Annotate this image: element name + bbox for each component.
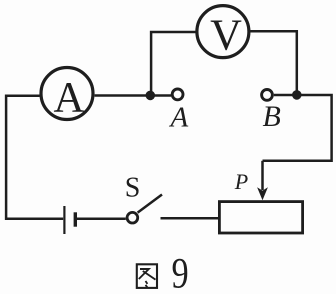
label P (italic) (234, 169, 248, 194)
svg-text:P: P (234, 169, 248, 194)
svg-text:A: A (169, 102, 189, 134)
caption numeral 9 (172, 250, 189, 294)
svg-text:B: B (263, 100, 281, 133)
switch S: pivot ring (127, 212, 138, 223)
switch S: lever blade (138, 195, 162, 213)
svg-text:V: V (210, 10, 242, 59)
wire voltmeter right branch down to node at B side (250, 31, 297, 95)
terminal B (open binding post) (262, 90, 273, 101)
label S (125, 173, 141, 204)
wire battery negative to switch (76, 217, 125, 220)
wire switch to rheostat left terminal (161, 217, 220, 220)
svg-text:A: A (53, 74, 84, 121)
svg-text:S: S (125, 173, 141, 204)
wire ammeter right to terminal A (95, 94, 171, 97)
wire voltmeter left branch down to node at A side (151, 32, 196, 95)
terminal A (open binding post) (172, 89, 183, 100)
ammeter A (41, 68, 93, 122)
rheostat P body (219, 202, 302, 233)
svg-text:9: 9 (172, 250, 189, 294)
battery cell: long positive plate (63, 206, 65, 234)
wire left rail from ammeter left, down left side, to battery positive (6, 96, 63, 219)
label A (italic) (169, 102, 189, 134)
voltmeter V (197, 6, 249, 60)
node junction right (at terminal B branch) (292, 90, 302, 100)
battery cell: short negative plate (74, 212, 77, 226)
node junction left (at terminal A branch) (146, 91, 156, 101)
caption character 图 (drawn strokes) (137, 264, 157, 288)
wire terminal B to right rail and across to slider arrow (263, 95, 332, 161)
rheostat slider arrow (257, 161, 268, 201)
label B (italic) (263, 100, 281, 133)
